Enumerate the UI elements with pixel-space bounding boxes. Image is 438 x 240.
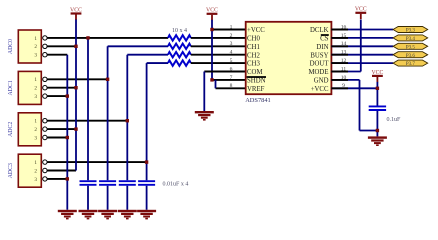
- wire U1 pin6 COM to ground: [204, 71, 245, 73]
- svg-text:DCLK: DCLK: [310, 27, 329, 34]
- svg-text:3: 3: [34, 135, 37, 141]
- capacitor C4 0.01uF: [138, 180, 155, 182]
- connector J3 ADC2: [8, 113, 47, 146]
- wire ADC3.2 to VCC bus: [47, 170, 76, 172]
- junction VCC / pin7: [210, 78, 213, 81]
- svg-text:MODE: MODE: [308, 69, 328, 76]
- svg-text:2: 2: [34, 86, 37, 92]
- port P3.7: [393, 60, 428, 66]
- wire signal CH3 vertical: [146, 63, 148, 180]
- svg-text:DIN: DIN: [316, 44, 328, 51]
- wire MODE pin11 to VCC: [360, 20, 362, 72]
- wire ADC0.1 to R1: [47, 37, 168, 39]
- wire U1 pin8 to pin7 net: [216, 87, 246, 89]
- svg-text:P3.4: P3.4: [406, 37, 416, 42]
- svg-text:P3.7: P3.7: [406, 62, 416, 67]
- resistor R2 10 ohm: [168, 44, 191, 49]
- svg-text:2: 2: [34, 44, 37, 50]
- junction VCC bus / ADC0.2: [74, 45, 77, 48]
- svg-text:CH0: CH0: [247, 36, 260, 43]
- wire ADC0.2 to VCC bus: [47, 45, 76, 47]
- ground G4: [118, 210, 137, 212]
- wire signal CH3 horizontal to R4: [147, 62, 168, 64]
- wire signal CH1 horizontal to R2: [108, 45, 168, 47]
- wire signal CH1 vertical: [107, 46, 109, 180]
- wire U1 pin1 stub: [212, 29, 246, 31]
- port P3.5: [393, 43, 428, 49]
- wire GND bus vertical: [66, 55, 68, 210]
- wire ADC2.1 to node C: [47, 120, 127, 122]
- wire signal CH0 vertical: [87, 38, 89, 180]
- wire ADC3.3 to GND bus: [47, 178, 67, 180]
- wire U1 pin 16 to port: [331, 29, 393, 31]
- svg-text:CH3: CH3: [247, 61, 260, 68]
- wire VCC bus vertical: [75, 20, 77, 171]
- wire R2 to U1 pin 3: [191, 45, 246, 47]
- svg-text:COM: COM: [247, 69, 263, 76]
- junction pin9 / VCC: [376, 87, 379, 90]
- svg-text:1: 1: [34, 160, 37, 166]
- junction GND bus / ADC3.3: [66, 177, 69, 180]
- svg-text:ADC0: ADC0: [8, 39, 14, 54]
- svg-text:3: 3: [34, 53, 37, 59]
- svg-text:ADC3: ADC3: [8, 163, 14, 178]
- capacitor C1 0.01uF: [80, 180, 97, 182]
- svg-text:P3.6: P3.6: [406, 54, 416, 59]
- svg-text:P3.3: P3.3: [406, 29, 416, 34]
- svg-text:0.01uF x 4: 0.01uF x 4: [163, 182, 189, 188]
- svg-text:GND: GND: [314, 78, 329, 85]
- ground G7: [368, 136, 387, 138]
- svg-text:1: 1: [34, 36, 37, 42]
- svg-text:ADC1: ADC1: [8, 80, 14, 95]
- svg-text:7: 7: [230, 75, 233, 81]
- wire ADC3.1 to node D: [47, 161, 146, 163]
- svg-text:+VCC: +VCC: [247, 27, 265, 34]
- port P3.6: [393, 52, 428, 58]
- svg-text:4: 4: [230, 50, 233, 56]
- wire pin9 +VCC: [331, 87, 377, 89]
- connector J2 ADC1: [8, 71, 47, 104]
- resistor R3 10 ohm: [168, 52, 191, 57]
- port P3.3: [393, 27, 428, 33]
- junction gnd net: [376, 129, 379, 132]
- wire ADC2.3 to GND bus: [47, 137, 67, 139]
- svg-text:1: 1: [34, 119, 37, 125]
- svg-text:CH2: CH2: [247, 52, 260, 59]
- ground G5: [137, 210, 156, 212]
- svg-text:SHDN: SHDN: [247, 78, 266, 85]
- svg-text:ADS7841: ADS7841: [245, 97, 271, 104]
- svg-text:ADC2: ADC2: [8, 122, 14, 137]
- svg-text:6: 6: [230, 66, 233, 72]
- junction node CH3 source: [145, 160, 148, 163]
- wire R1 to U1 pin 2: [191, 37, 246, 39]
- wire R3 to U1 pin 4: [191, 54, 246, 56]
- junction node CH2 source: [126, 119, 129, 122]
- junction VCC / pin1: [210, 28, 213, 31]
- svg-text:1: 1: [230, 24, 233, 30]
- svg-text:CH1: CH1: [247, 44, 260, 51]
- svg-text:+VCC: +VCC: [311, 86, 329, 93]
- wire ADC1.2 to VCC bus: [47, 87, 76, 89]
- port P3.4: [393, 35, 428, 41]
- svg-text:2: 2: [230, 33, 233, 39]
- junction node CH1 source: [106, 78, 109, 81]
- wire ADC1.3 to GND bus: [47, 95, 67, 97]
- IC U1 ADS7841: [230, 22, 347, 104]
- svg-text:2: 2: [34, 127, 37, 133]
- connector J1 ADC0: [8, 30, 47, 63]
- resistor R1 10 ohm: [168, 35, 191, 40]
- capacitor C5 0.1uF: [369, 105, 386, 107]
- svg-text:0.1uF: 0.1uF: [387, 117, 402, 123]
- svg-text:VREF: VREF: [247, 86, 265, 93]
- wire VCC to cap C5: [376, 82, 378, 106]
- wire ADC0.3 to GND bus: [47, 54, 67, 56]
- svg-text:8: 8: [230, 83, 233, 89]
- wire R4 to U1 pin 5: [191, 62, 246, 64]
- ground G6 (COM): [195, 111, 214, 113]
- svg-text:P3.5: P3.5: [406, 45, 416, 50]
- wire cap C5 to ground: [376, 111, 378, 136]
- junction GND bus / ADC2.3: [66, 136, 69, 139]
- wire U1 pin 14 to port: [331, 45, 393, 47]
- wire signal CH2 vertical: [126, 55, 128, 181]
- wire U1 pin 12 to port: [331, 62, 393, 64]
- svg-text:3: 3: [34, 94, 37, 100]
- wire ADC1.1 to node B: [47, 78, 107, 80]
- wire signal CH2 horizontal to R3: [127, 54, 168, 56]
- ground G2: [79, 210, 98, 212]
- svg-text:2: 2: [34, 168, 37, 174]
- svg-text:DOUT: DOUT: [310, 61, 330, 68]
- wire GND pin10 to ground: [331, 79, 359, 81]
- capacitor C3 0.01uF: [119, 180, 136, 182]
- wire U1 pin 13 to port: [331, 54, 393, 56]
- connector J4 ADC3: [8, 154, 47, 187]
- svg-text:CS: CS: [320, 36, 329, 43]
- svg-text:3: 3: [230, 41, 233, 47]
- junction VCC bus / ADC2.2: [74, 127, 77, 130]
- svg-text:10 x 4: 10 x 4: [172, 28, 187, 34]
- svg-text:5: 5: [230, 58, 233, 64]
- svg-text:3: 3: [34, 177, 37, 183]
- ground G1: [58, 210, 77, 212]
- wire U1 pin 15 to port: [331, 37, 393, 39]
- wire U1 pin7 stub: [212, 79, 246, 81]
- svg-text:1: 1: [34, 77, 37, 83]
- capacitor C2 0.01uF: [99, 180, 116, 182]
- resistor R4 10 ohm: [168, 60, 191, 65]
- wire ADC2.2 to VCC bus: [47, 128, 76, 130]
- wire VCC to U1 pin1/pin7: [211, 20, 213, 80]
- junction VCC bus / ADC1.2: [74, 86, 77, 89]
- svg-text:BUSY: BUSY: [310, 52, 328, 59]
- junction node CH0 source: [86, 36, 89, 39]
- junction GND bus / ADC1.3: [66, 94, 69, 97]
- ground G3: [98, 210, 117, 212]
